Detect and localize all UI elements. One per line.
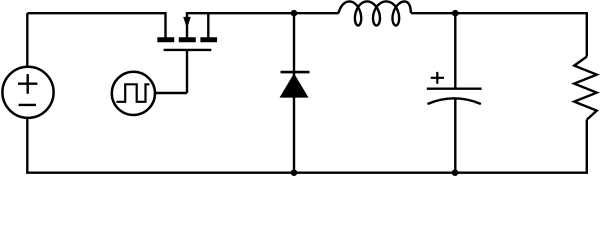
wire: right rail down to resistor bbox=[586, 13, 588, 56]
wire: inductor to output rail bbox=[411, 12, 588, 14]
channel bar middle (bulk) bbox=[179, 37, 196, 42]
wire: left rail (source top lead) bbox=[26, 13, 28, 67]
capacitor C1 bottom lead bbox=[454, 99, 456, 173]
wire: top rail from source to MOSFET drain, with drain stub bbox=[27, 13, 165, 37]
node: junction dot switch node bbox=[291, 10, 298, 17]
inductor L1 bbox=[339, 1, 412, 25]
capacitor C1 top plate bbox=[427, 87, 482, 89]
gate bar bbox=[164, 49, 212, 51]
node: junction dot cap top bbox=[452, 10, 459, 17]
voltage source V1 bbox=[2, 67, 53, 118]
resistor R1 bbox=[574, 57, 597, 120]
wire: resistor bottom lead bbox=[586, 120, 588, 173]
capacitor C1 top lead bbox=[454, 13, 456, 89]
diode D1 vertical wire bbox=[293, 13, 295, 173]
diode triangle bbox=[280, 73, 309, 97]
pulse source VG bbox=[112, 72, 155, 115]
wire: switch node rail (MOSFET to inductor) bbox=[186, 12, 339, 14]
capacitor C1 curved plate bbox=[428, 98, 481, 104]
wire: bottom rail bbox=[26, 171, 588, 173]
bulk stub with corner to top rail 2 bbox=[186, 13, 188, 37]
source stub bbox=[207, 13, 209, 37]
wire: left rail (source bottom lead) bbox=[26, 118, 28, 173]
capacitor plus label bbox=[431, 72, 444, 84]
diode cathode bar bbox=[281, 71, 310, 74]
gate lead bbox=[186, 50, 188, 93]
wire: pulse source to gate bbox=[155, 92, 187, 94]
node: junction dot diode bottom bbox=[291, 169, 298, 176]
bulk arrow bbox=[183, 17, 191, 29]
node: junction dot cap bottom bbox=[452, 169, 459, 176]
channel bar right (source) bbox=[200, 37, 217, 42]
channel bar left (drain) bbox=[157, 37, 174, 42]
